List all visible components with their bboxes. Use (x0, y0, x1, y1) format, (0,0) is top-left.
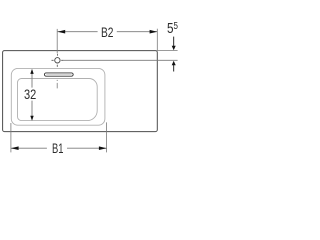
dimension B1 right extension line (106, 122, 108, 152)
centerline dash-dot below tap hole (56, 65, 58, 89)
label B2 (101, 26, 113, 40)
label 5.5 (167, 22, 178, 37)
overflow slot outer (44, 73, 73, 76)
basin inner rim (18, 79, 98, 121)
dimension 32 up arrow (30, 69, 33, 74)
dimension 32 down arrow (30, 116, 33, 121)
dimension B1 line right segment (67, 147, 107, 149)
tap hole leader line to right (63, 59, 177, 61)
dimension B2 line right segment (117, 31, 157, 33)
dimension 5.5 up arrow (172, 61, 176, 65)
dimension B2 line left segment (58, 31, 98, 33)
dimension B2 arrow left (58, 30, 66, 34)
dimension 5.5 down arrow (172, 37, 176, 51)
dimension B2 right extension line (156, 29, 158, 51)
tap hole circle (55, 58, 60, 63)
washtop rear edge extension line (right) (157, 50, 177, 52)
dimension 32 line top segment with up arrow (31, 73, 33, 88)
basin outer rim (11, 68, 105, 125)
centerline of tap hole (vertical, extension up to B2) (56, 29, 58, 53)
dimension B1 line left segment (11, 147, 47, 149)
dimension 32 line bottom segment with down arrow (31, 101, 33, 116)
washtop outline (3, 51, 158, 132)
overflow slot inner (46, 73, 71, 75)
label B1 (52, 142, 63, 156)
tap hole crosshair ticks (52, 54, 64, 67)
label 32 (24, 88, 36, 102)
dimension B1 arrow left (11, 146, 19, 150)
dimension B1 arrow right (99, 146, 107, 150)
dimension B1 left extension line (10, 123, 12, 152)
dimension B2 arrow right (150, 30, 158, 34)
